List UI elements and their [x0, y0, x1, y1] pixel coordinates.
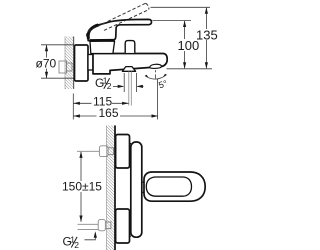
wall supply union (behind wall, phantom): [59, 61, 72, 73]
body tube: [131, 142, 142, 237]
shower outlet boss: [122, 67, 135, 72]
diverter knob on body: [125, 41, 135, 53]
lever raised position (dashed): [86, 3, 148, 36]
top wall flange: [116, 135, 130, 169]
135 dimension: [151, 6, 211, 8]
115 dimension: [72, 94, 74, 120]
G1/2 leader, bottom view: [85, 233, 96, 240]
165 dimension: [157, 79, 159, 120]
shared bottom extension line: [167, 68, 213, 70]
svg-text:150±15: 150±15: [62, 179, 102, 193]
G1/2 label, bottom view: [63, 234, 80, 250]
5 deg centerline and arc: [155, 70, 157, 79]
lever underside band: [90, 39, 114, 41]
aerator at spout tip: [150, 64, 162, 68]
dia 70 dimension line: [46, 45, 48, 58]
eccentric unions: [99, 146, 108, 157]
G1/2 top arrows: [123, 73, 125, 92]
dia 70 extension lines: [41, 44, 74, 46]
escutcheon flange Ø70: [75, 45, 89, 81]
lever handle (seen from above): [144, 172, 205, 201]
wall section (hatched), bottom view: [107, 125, 116, 250]
texts bottom view: [62, 179, 102, 193]
cartridge dome: [90, 41, 115, 53]
svg-text:135: 135: [196, 28, 218, 43]
G1/2 label, top view: [95, 76, 112, 92]
G1/2 outlet nipple: [129, 71, 132, 105]
supply pipes (phantom): [77, 146, 114, 231]
dimension texts, top view: [36, 28, 218, 121]
neck lines: [130, 144, 132, 237]
100 dimension: [153, 20, 192, 22]
arrowheads top view: [45, 7, 208, 117]
lever heel thick edge: [88, 25, 98, 39]
svg-text:ø70: ø70: [36, 57, 57, 71]
bottom wall flange: [116, 209, 130, 243]
150 +/- 15 dimension: [80, 152, 82, 222]
neck between flange and body: [88, 55, 93, 71]
body and spout outline: [93, 54, 167, 74]
wall section (hatched): [65, 37, 74, 90]
svg-text:165: 165: [99, 106, 119, 120]
lever handle (side view): [88, 19, 151, 40]
